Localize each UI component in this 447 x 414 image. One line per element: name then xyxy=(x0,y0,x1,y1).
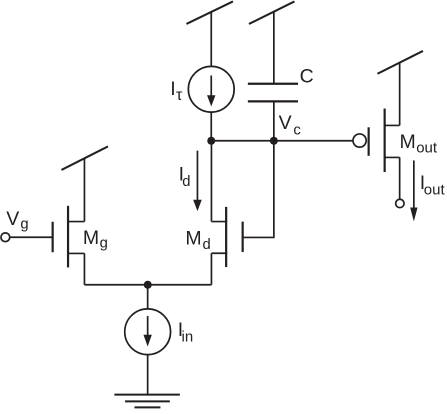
junction dot node Vc xyxy=(270,137,278,145)
wire Mg source down to tail rail xyxy=(83,253,85,284)
output terminal open circle xyxy=(396,199,404,207)
wire tail node down to I-in xyxy=(147,285,149,310)
transistor Mg channel xyxy=(67,206,69,268)
wire node Vc horizontal rail to Mout gate xyxy=(211,140,353,142)
transistor Mg source stub xyxy=(67,252,84,254)
wire node Vc down to Md gate xyxy=(243,141,274,238)
svg-text:V: V xyxy=(6,208,19,230)
wire capacitor bottom plate to node Vc xyxy=(273,101,275,140)
current source I-in arrow xyxy=(147,316,149,336)
wire supply to capacitor top plate xyxy=(273,12,275,84)
junction dot tail node xyxy=(144,281,152,289)
wire Mout source down to output terminal xyxy=(399,157,401,199)
wire supply to I-tau top xyxy=(210,12,212,66)
capacitor C bottom plate xyxy=(248,100,298,102)
transistor Md drain stub xyxy=(211,221,227,223)
svg-text:τ: τ xyxy=(176,87,183,104)
svg-text:V: V xyxy=(279,112,292,134)
input terminal Vg open circle xyxy=(1,233,10,242)
transistor Mout gate bubble xyxy=(353,134,366,147)
wire tail rail Mg source to Md source xyxy=(84,284,211,286)
power rail slash above capacitor C xyxy=(249,1,295,24)
wire Vg terminal to Mg gate xyxy=(10,236,53,238)
current arrow Iout xyxy=(413,160,415,208)
svg-text:out: out xyxy=(424,182,446,199)
svg-text:C: C xyxy=(300,65,314,87)
wire I-in bottom to ground xyxy=(147,354,149,395)
svg-text:M: M xyxy=(400,131,416,153)
current source I-tau circle xyxy=(188,66,234,112)
svg-text:d: d xyxy=(182,174,190,190)
transistor Mout gate bar xyxy=(368,127,370,156)
current source I-in circle xyxy=(125,309,171,355)
transistor Mout channel xyxy=(384,109,386,173)
svg-text:in: in xyxy=(182,329,194,346)
wire Mout supply to Mout drain xyxy=(399,62,401,125)
transistor Md source stub xyxy=(211,252,227,254)
power rail slash above Mg xyxy=(61,146,107,170)
svg-text:g: g xyxy=(20,216,28,232)
svg-text:out: out xyxy=(416,140,438,157)
wire Md drain from Vc rail down xyxy=(210,141,212,222)
current source I-tau arrow xyxy=(210,75,212,96)
svg-text:c: c xyxy=(293,122,301,138)
wire I-tau bottom to node Vc rail xyxy=(210,112,212,141)
svg-text:d: d xyxy=(203,237,211,253)
transistor Mg drain stub xyxy=(67,221,84,223)
transistor Md channel xyxy=(225,207,227,267)
wire Mg supply to Mg drain xyxy=(83,158,85,221)
current arrow Id xyxy=(196,151,198,201)
transistor Mg gate bar xyxy=(52,222,54,253)
transistor Md gate bar xyxy=(242,222,244,252)
svg-text:M: M xyxy=(83,227,99,249)
wire Md source down to tail rail xyxy=(210,253,212,285)
ground bottom line xyxy=(134,406,160,408)
power rail slash above Mout xyxy=(377,51,423,74)
ground top line xyxy=(114,394,180,396)
power rail slash above I-tau xyxy=(186,1,233,24)
ground middle line xyxy=(125,400,170,402)
transistor Mout source stub xyxy=(384,156,400,158)
junction dot I-tau / Md drain xyxy=(207,137,215,145)
svg-text:g: g xyxy=(100,236,108,252)
svg-text:M: M xyxy=(185,227,201,249)
svg-text:I: I xyxy=(170,78,175,100)
transistor Mout drain stub xyxy=(384,124,400,126)
capacitor C top plate xyxy=(248,83,298,85)
